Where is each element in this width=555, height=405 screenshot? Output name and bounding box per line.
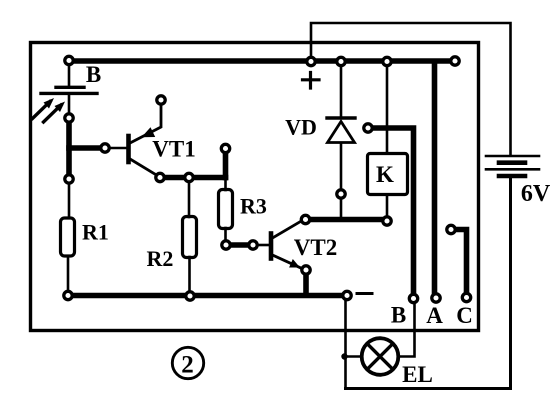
wire battery negative loop	[346, 177, 511, 389]
wire VT2 collector to relay	[306, 217, 387, 223]
node photocell bottom terminal	[65, 114, 73, 122]
node collector stub terminal	[221, 144, 229, 152]
svg-text:R3: R3	[240, 194, 267, 219]
node contact C feed terminal	[447, 225, 455, 233]
svg-text:2: 2	[181, 352, 194, 379]
wire battery positive loop	[311, 23, 511, 154]
wire VT1 collector run	[160, 175, 226, 181]
svg-text:B: B	[86, 62, 101, 87]
wire lamp feed from minus rail	[344, 296, 347, 389]
node R3 bottom terminal	[222, 241, 230, 249]
svg-text:K: K	[376, 162, 394, 187]
svg-text:VT1: VT1	[152, 137, 195, 162]
wire VT2 emitter drop	[303, 270, 309, 295]
node contact A	[432, 294, 440, 302]
node bus plus	[307, 57, 315, 65]
plus sign	[303, 73, 320, 89]
node diode anode terminal	[337, 190, 345, 198]
svg-text:A: A	[426, 303, 443, 328]
figure number circle	[172, 347, 203, 378]
node R2 top terminal	[185, 173, 193, 181]
wire photocell top lead	[68, 60, 71, 86]
wire R3 bottom lead	[224, 228, 227, 244]
node relay coil bottom terminal	[383, 217, 391, 225]
main circuit board box	[31, 43, 479, 331]
wire lamp left lead	[344, 355, 361, 358]
node VT1 base terminal	[101, 144, 109, 152]
wire R3 top lead	[224, 179, 227, 190]
lamp EL	[362, 338, 399, 375]
wire photocell bottom lead	[68, 94, 71, 118]
resistor R2	[183, 217, 197, 258]
svg-text:B: B	[391, 303, 406, 328]
node contact B	[409, 294, 417, 302]
transistor VT1	[129, 105, 162, 176]
node VT2 collector terminal	[301, 215, 309, 223]
transistor VT2	[271, 220, 303, 269]
wire VT1 base lead	[108, 147, 126, 150]
resistor R3	[219, 190, 233, 229]
node relay armature terminal	[364, 124, 372, 132]
junction lamp-left node	[341, 353, 347, 359]
wire minus rail	[68, 293, 347, 299]
wire diode bottom lead	[340, 143, 343, 190]
wire R2 top lead	[188, 182, 191, 217]
wire collector stub up	[223, 152, 229, 178]
wire bus to contact A	[432, 62, 438, 294]
svg-text:C: C	[456, 303, 473, 328]
node contact C	[462, 293, 470, 301]
minus sign	[357, 292, 372, 295]
wire R3 to VT2 base	[226, 242, 253, 248]
wire relay armature to contact B	[372, 128, 414, 295]
node rail R1 terminal	[64, 291, 72, 299]
relay K coil box	[368, 154, 408, 195]
node rail minus terminal	[343, 291, 351, 299]
node VT2 base terminal	[249, 241, 257, 249]
node bus relay	[383, 57, 391, 65]
wire diode top lead	[340, 64, 343, 117]
svg-text:R2: R2	[147, 246, 174, 271]
svg-text:6V: 6V	[521, 181, 551, 207]
node bus diode	[337, 57, 345, 65]
node bus right end	[451, 57, 459, 65]
terminal circles	[64, 56, 471, 302]
wire photocell to divider (left branch)	[66, 118, 72, 179]
diode VD	[327, 118, 355, 143]
wire relay coil bottom lead	[386, 196, 389, 218]
wire left branch to VT1 base	[69, 145, 105, 151]
resistor R1	[61, 218, 75, 256]
battery GB plates	[486, 156, 539, 176]
wire R1 bottom lead	[67, 256, 70, 295]
wire R1 top lead	[68, 179, 71, 218]
node VT1 collector terminal	[156, 173, 164, 181]
light arrow 2	[44, 102, 66, 123]
wire lamp right lead to contact B	[399, 303, 415, 357]
wire plus bus	[69, 58, 455, 64]
svg-text:EL: EL	[402, 362, 433, 387]
svg-text:VD: VD	[285, 115, 317, 140]
wire diode to collector rail	[340, 198, 343, 219]
node VT2 emitter terminal	[302, 266, 310, 274]
photocell B plates	[41, 87, 97, 93]
node bus left end	[65, 56, 73, 64]
node divider terminal	[65, 175, 73, 183]
svg-text:R1: R1	[82, 220, 109, 245]
node VT1 emitter terminal	[157, 96, 165, 104]
light arrow 1	[33, 98, 55, 119]
wire to contact C	[453, 230, 467, 295]
wire relay coil top lead	[386, 64, 389, 153]
wire R2 bottom lead	[188, 257, 191, 295]
svg-text:VT2: VT2	[294, 235, 337, 260]
node rail R2 terminal	[186, 292, 194, 300]
wire VT2 base lead	[256, 244, 268, 247]
